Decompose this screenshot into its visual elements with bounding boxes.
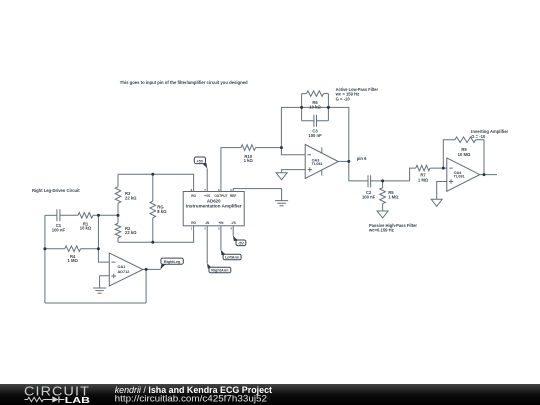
wire pin4 -VS <box>232 226 234 236</box>
wire <box>143 268 161 270</box>
svg-text:1 MΩ: 1 MΩ <box>388 194 399 199</box>
wire <box>256 147 282 149</box>
node junction <box>327 106 330 109</box>
op-amp OA1 <box>109 253 143 286</box>
node +5V flag <box>194 157 207 169</box>
wire feedback loop right <box>327 94 329 121</box>
svg-text:R7: R7 <box>420 172 426 177</box>
wire pin2 -IN <box>206 226 208 263</box>
wire <box>338 160 349 162</box>
node junction <box>151 173 154 176</box>
svg-text:-IN: -IN <box>205 221 210 225</box>
node junction <box>381 179 384 182</box>
wire <box>371 168 416 181</box>
wire <box>145 269 147 303</box>
wire <box>281 107 305 154</box>
svg-text:22 kΩ: 22 kΩ <box>125 230 137 235</box>
wire <box>430 167 447 169</box>
capacitor C1 <box>57 209 60 221</box>
svg-text:-5V: -5V <box>238 242 244 246</box>
svg-text:10 kΩ: 10 kΩ <box>80 226 92 231</box>
op-amp U1 AD620 instrumentation amplifier <box>183 192 244 226</box>
svg-text:+VS: +VS <box>204 194 210 198</box>
node junction <box>145 268 148 271</box>
wire pin6 OUTPUT <box>221 148 241 192</box>
node junction <box>117 214 120 217</box>
resistor R10 <box>241 145 256 151</box>
svg-text:-VS: -VS <box>231 221 236 225</box>
svg-text:LeftArm: LeftArm <box>225 256 240 260</box>
node RightLeg flag <box>160 258 183 270</box>
svg-text:wc = 159 Hz: wc = 159 Hz <box>335 92 360 97</box>
svg-text:pin 6: pin 6 <box>357 156 367 161</box>
svg-text:10 kΩ: 10 kΩ <box>309 104 321 109</box>
svg-text:+IN: +IN <box>218 221 224 225</box>
node junction <box>483 173 486 176</box>
CircuitLab logo <box>24 384 90 404</box>
node junction <box>97 247 100 250</box>
svg-text:RG: RG <box>191 194 196 198</box>
svg-text:G = -10: G = -10 <box>336 96 351 101</box>
ground <box>431 199 442 206</box>
svg-text:1 kΩ: 1 kΩ <box>244 158 254 163</box>
svg-text:100 nF: 100 nF <box>362 194 376 199</box>
svg-text:LAB: LAB <box>65 395 90 405</box>
svg-text:OA1: OA1 <box>118 265 126 269</box>
svg-text:wc=0.159 Hz: wc=0.159 Hz <box>368 228 394 233</box>
node junction <box>442 167 445 170</box>
resistor RG <box>150 174 156 242</box>
op-amp OA4 <box>447 158 480 191</box>
node RightArm flag <box>207 263 231 273</box>
svg-text:AD712: AD712 <box>118 270 130 274</box>
svg-text:Inverting Amplifier: Inverting Amplifier <box>471 129 508 134</box>
svg-text:REF: REF <box>230 194 236 198</box>
node LeftArm flag <box>221 250 241 260</box>
svg-text:http://circuitlab.com/c425f7h3: http://circuitlab.com/c425f7h33uj52 <box>115 393 267 404</box>
ground <box>275 201 288 206</box>
svg-text:RG: RG <box>191 221 196 225</box>
wire pin5 REF to ground <box>233 189 281 201</box>
resistor R6 <box>302 91 329 97</box>
wire <box>100 276 110 288</box>
resistor R1 <box>78 213 93 219</box>
resistor R4 <box>65 246 81 252</box>
resistor R2 <box>115 215 121 242</box>
svg-text:RightLeg: RightLeg <box>164 260 181 264</box>
wire <box>44 215 46 303</box>
resistor R7 <box>416 165 430 171</box>
svg-text:G = -10: G = -10 <box>471 134 486 139</box>
wire <box>118 226 194 242</box>
wire <box>480 174 497 176</box>
wire <box>98 215 109 262</box>
node junction <box>97 214 100 217</box>
svg-text:100 nF: 100 nF <box>308 133 322 138</box>
wire <box>93 214 118 216</box>
wire <box>302 106 329 108</box>
svg-text:TL081: TL081 <box>454 175 465 179</box>
label flag texts <box>164 159 244 272</box>
svg-text:Right Leg-Driven Circuit: Right Leg-Driven Circuit <box>32 188 80 193</box>
node junction <box>347 160 350 163</box>
svg-text:RightArm: RightArm <box>211 269 229 273</box>
node junction <box>43 247 46 250</box>
ground <box>93 288 106 293</box>
wire pin3 +IN <box>220 226 222 250</box>
op-amp OA3 <box>305 145 338 179</box>
wire <box>328 107 368 180</box>
wire pin7 +VS <box>206 169 208 192</box>
wire <box>118 174 194 191</box>
svg-text:100 nF: 100 nF <box>52 227 66 232</box>
wire <box>437 182 447 200</box>
svg-text:AD620: AD620 <box>207 198 221 203</box>
wire <box>282 170 306 173</box>
svg-text:+5V: +5V <box>196 159 203 163</box>
node junction <box>280 146 283 149</box>
wire <box>443 140 455 168</box>
resistor R5 <box>380 181 386 211</box>
wire feedback loop left <box>301 94 303 121</box>
ground <box>276 173 287 180</box>
svg-text:1 MΩ: 1 MΩ <box>68 258 79 263</box>
wire <box>476 140 484 175</box>
ground <box>377 211 388 218</box>
capacitor C2 <box>368 175 371 187</box>
footer bar <box>0 384 540 405</box>
wire <box>45 248 65 250</box>
svg-text:OUTPUT: OUTPUT <box>214 194 227 198</box>
svg-text:This goes to input pin of the: This goes to input pin of the filter/amp… <box>120 80 248 85</box>
svg-text:Instrumentation Amplifier: Instrumentation Amplifier <box>186 204 242 209</box>
wire <box>60 214 78 216</box>
node junction <box>151 241 154 244</box>
wire <box>45 214 57 216</box>
capacitor C3 <box>302 115 329 127</box>
svg-text:1 MΩ: 1 MΩ <box>418 177 429 182</box>
svg-text:TL081: TL081 <box>312 162 323 166</box>
wire <box>81 248 99 250</box>
svg-text:22 kΩ: 22 kΩ <box>125 195 137 200</box>
node -5V flag <box>233 236 246 246</box>
resistor R3 <box>115 174 121 215</box>
svg-text:R9: R9 <box>461 147 467 152</box>
resistor R9 <box>455 137 476 143</box>
svg-text:10 MΩ: 10 MΩ <box>458 152 471 157</box>
wire <box>45 302 146 304</box>
svg-text:8 kΩ: 8 kΩ <box>157 209 167 214</box>
node junction <box>300 106 303 109</box>
